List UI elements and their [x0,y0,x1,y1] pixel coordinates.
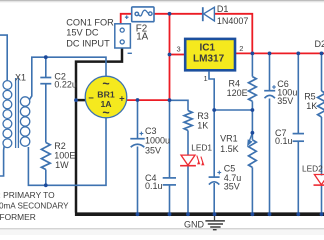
svg-text:0mA SECONDARY: 0mA SECONDARY [0,202,69,211]
svg-text:35V: 35V [277,96,293,106]
svg-text:0.22u: 0.22u [54,80,77,90]
svg-text:35V: 35V [145,146,161,156]
svg-text:LED2: LED2 [302,164,323,174]
svg-text:15V DC: 15V DC [66,28,99,38]
svg-text:LED1: LED1 [191,143,212,153]
svg-text:1000u: 1000u [145,136,170,146]
svg-text:: PRIMARY TO: : PRIMARY TO [0,190,55,200]
svg-text:1K: 1K [306,101,317,111]
svg-text:GND: GND [184,219,205,229]
svg-text:R5: R5 [304,91,316,101]
svg-text:0.1u: 0.1u [275,136,293,146]
svg-text:X1: X1 [15,72,26,82]
svg-text:1: 1 [204,74,208,83]
svg-text:DC INPUT: DC INPUT [66,39,110,49]
svg-text:FORMER: FORMER [0,212,36,222]
svg-text:0.1u: 0.1u [145,181,163,191]
svg-text:1A: 1A [136,32,148,43]
svg-text:2: 2 [239,44,243,53]
svg-text:1W: 1W [55,160,69,170]
svg-text:120E: 120E [227,88,248,98]
svg-text:35V: 35V [224,182,240,192]
svg-text:~: ~ [102,106,109,120]
svg-text:CON1 FOR: CON1 FOR [66,17,114,27]
svg-text:LM317: LM317 [193,54,225,65]
svg-text:+: + [119,93,125,104]
svg-text:1K: 1K [197,121,208,131]
svg-text:1N4007: 1N4007 [217,16,249,26]
svg-text:R3: R3 [197,111,209,121]
svg-text:1.5K: 1.5K [220,144,239,154]
svg-text:D2: D2 [315,39,324,49]
svg-text:−: − [88,93,94,104]
svg-text:VR1: VR1 [220,133,238,143]
svg-text:D1: D1 [217,4,229,14]
svg-text:3: 3 [177,45,181,54]
svg-text:IC1: IC1 [200,43,216,54]
